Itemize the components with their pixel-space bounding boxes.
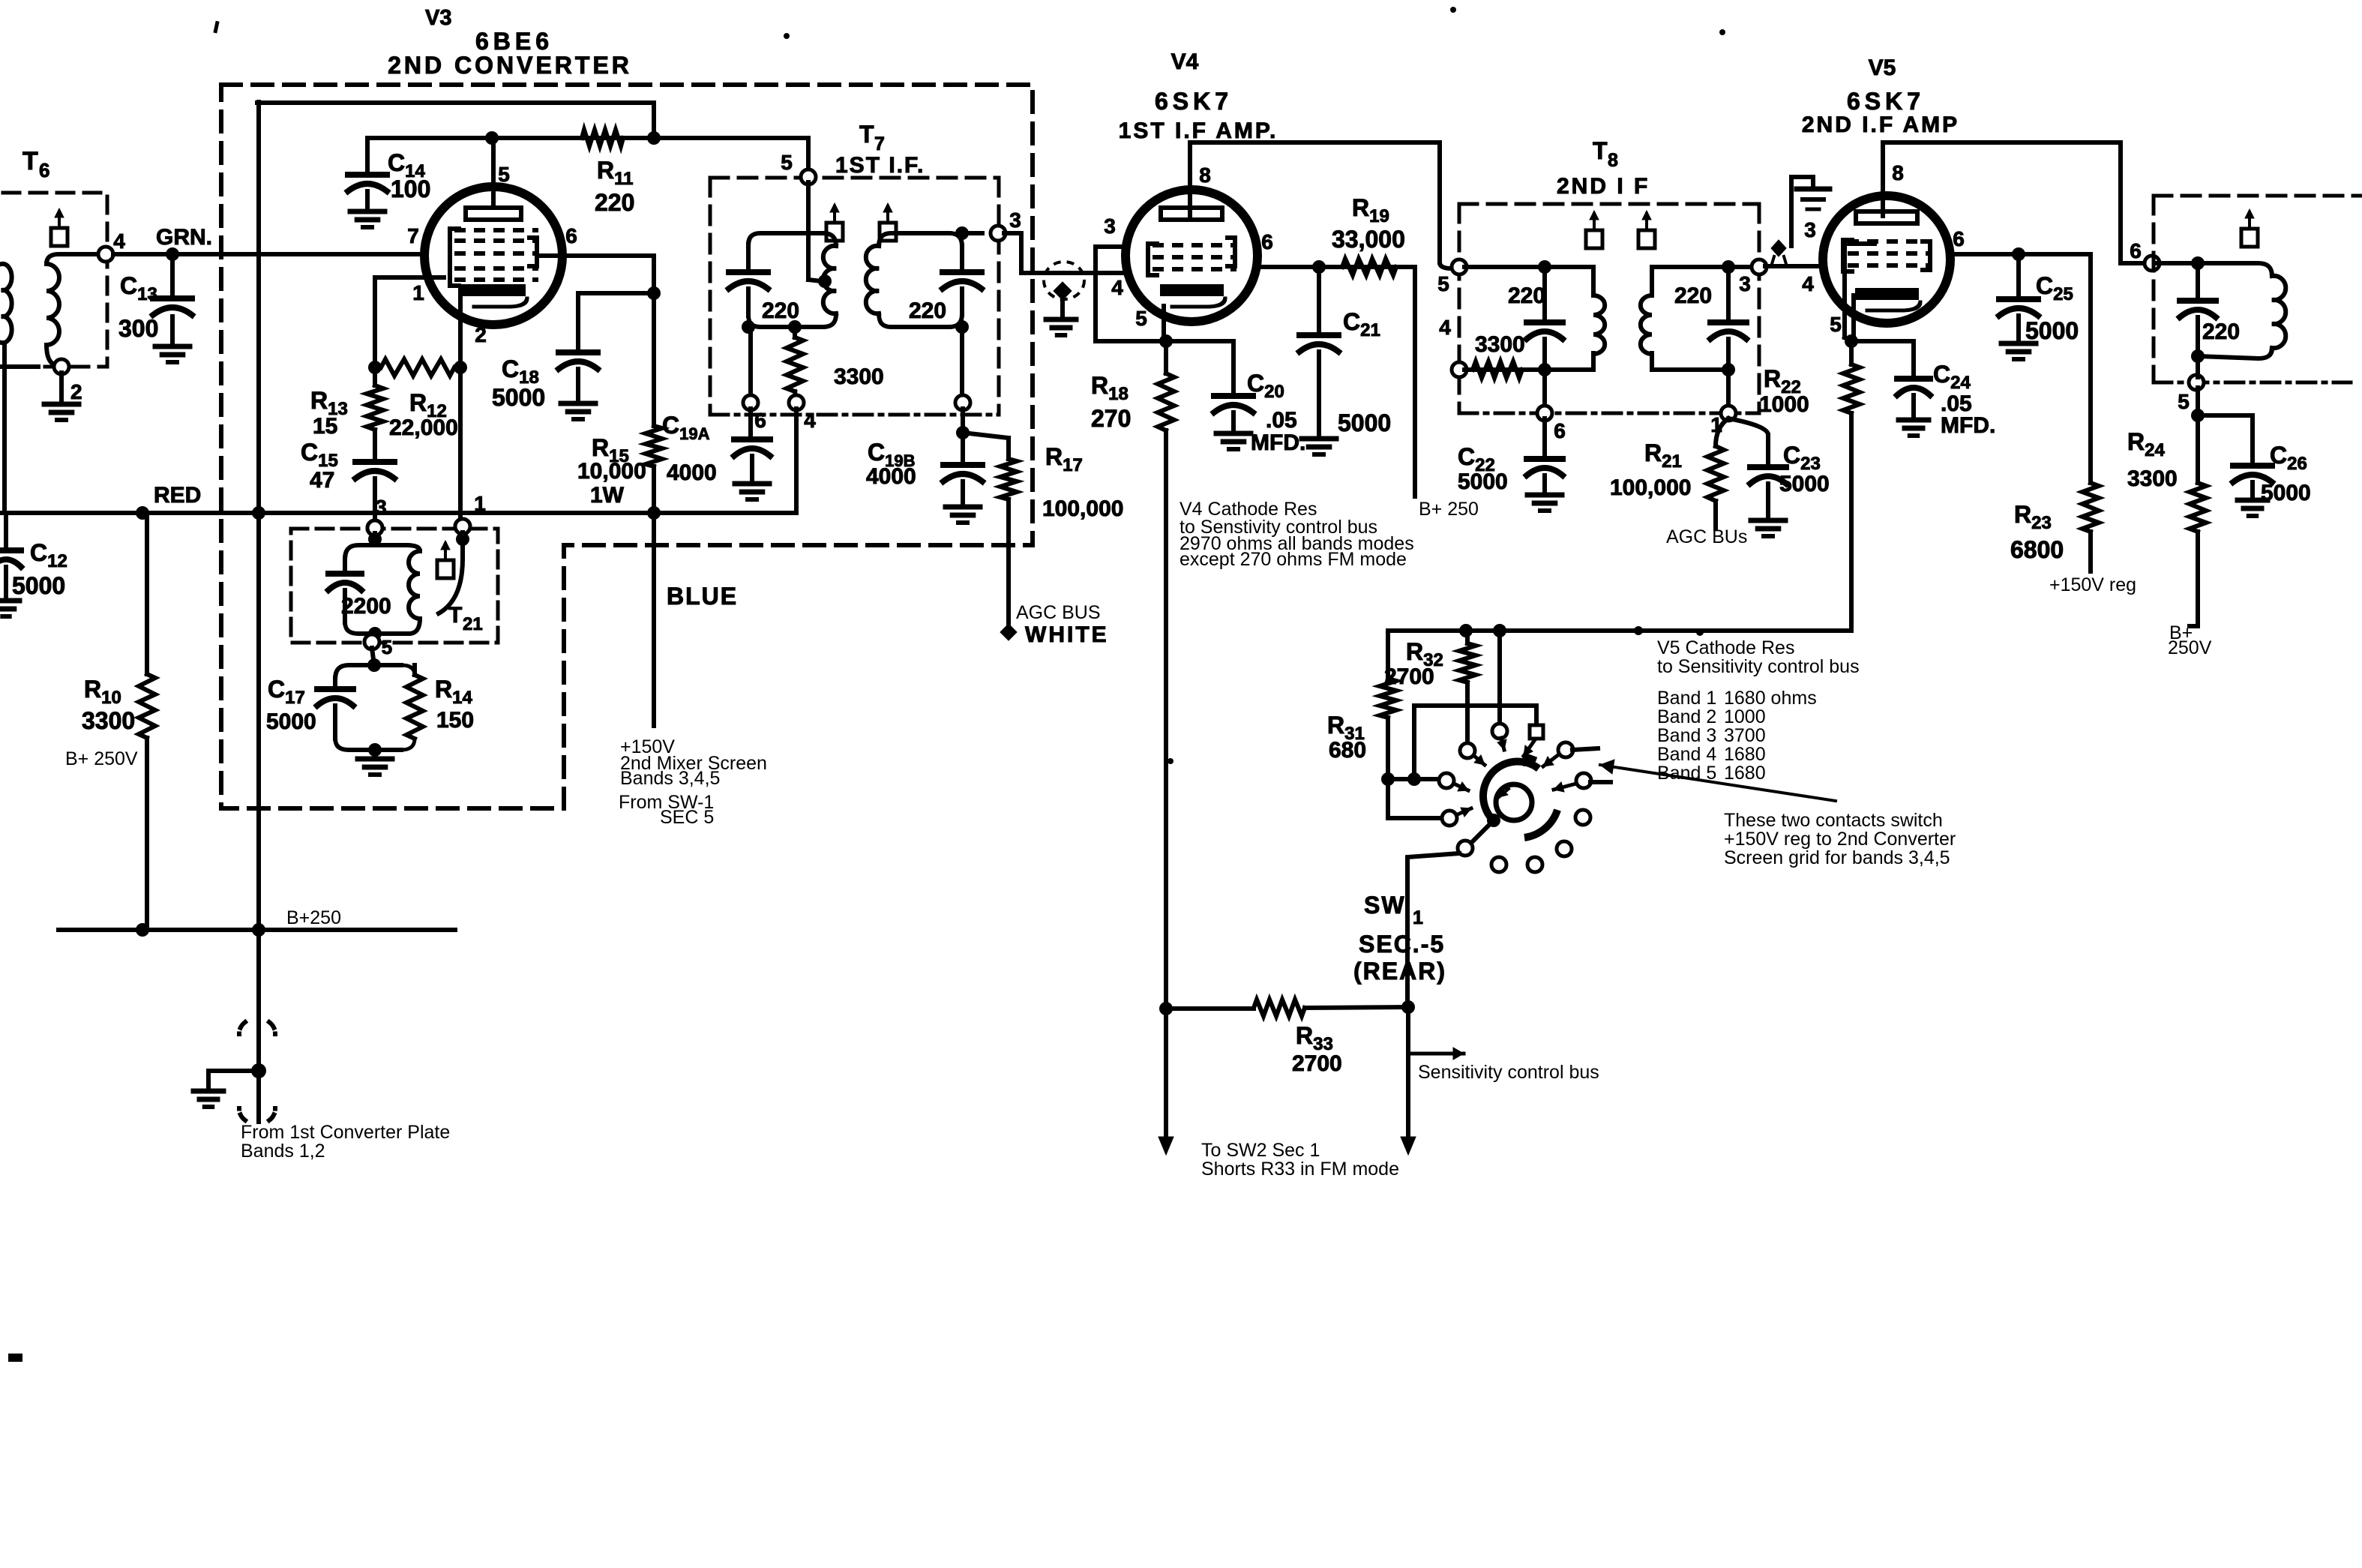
svg-text:1: 1 [474, 492, 486, 515]
svg-text:Band 2: Band 2 [1657, 706, 1716, 727]
svg-text:SEC 5: SEC 5 [660, 807, 714, 828]
svg-text:3: 3 [1739, 272, 1751, 295]
svg-text:300: 300 [118, 315, 158, 342]
svg-text:SW: SW [1364, 892, 1406, 919]
svg-text:6: 6 [1261, 230, 1273, 253]
svg-text:3: 3 [1804, 218, 1816, 241]
svg-text:2ND I F: 2ND I F [1557, 174, 1650, 199]
svg-text:6: 6 [754, 409, 766, 432]
svg-text:5: 5 [1437, 272, 1449, 295]
svg-text:1: 1 [412, 281, 424, 304]
svg-text:270: 270 [1091, 405, 1131, 432]
svg-text:5000: 5000 [492, 384, 545, 411]
svg-text:3300: 3300 [834, 364, 884, 389]
svg-text:220: 220 [2202, 319, 2240, 344]
svg-text:3300: 3300 [2127, 466, 2178, 491]
svg-text:4000: 4000 [866, 464, 916, 489]
svg-text:5000: 5000 [1779, 472, 1830, 496]
svg-text:5000: 5000 [1458, 469, 1508, 494]
svg-text:3300: 3300 [1475, 332, 1525, 357]
svg-text:5: 5 [1830, 313, 1842, 336]
svg-text:WHITE: WHITE [1025, 622, 1109, 647]
svg-text:Band 3: Band 3 [1657, 725, 1716, 746]
svg-text:5: 5 [781, 151, 793, 174]
svg-text:47: 47 [310, 468, 334, 493]
svg-text:1: 1 [1413, 907, 1423, 928]
svg-text:2: 2 [70, 380, 82, 403]
svg-text:3: 3 [375, 496, 387, 519]
svg-text:6: 6 [565, 224, 577, 247]
svg-text:10,000: 10,000 [577, 459, 646, 484]
svg-text:4000: 4000 [667, 460, 717, 485]
svg-text:8: 8 [1892, 161, 1904, 184]
svg-text:4: 4 [804, 409, 816, 432]
svg-text:7: 7 [874, 133, 885, 154]
svg-text:2700: 2700 [1384, 664, 1434, 689]
svg-text:2ND I.F AMP: 2ND I.F AMP [1802, 112, 1959, 137]
svg-text:22,000: 22,000 [389, 415, 458, 440]
svg-text:.05: .05 [1266, 408, 1297, 433]
svg-text:+150V reg to 2nd Converter: +150V reg to 2nd Converter [1724, 829, 1956, 850]
svg-text:V3: V3 [425, 6, 451, 30]
svg-text:220: 220 [1508, 283, 1545, 308]
svg-text:220: 220 [762, 298, 799, 323]
svg-text:1ST I.F AMP.: 1ST I.F AMP. [1119, 118, 1278, 143]
svg-text:2700: 2700 [1292, 1051, 1342, 1076]
svg-text:150: 150 [436, 708, 474, 733]
svg-text:To SW2 Sec 1: To SW2 Sec 1 [1201, 1140, 1320, 1161]
svg-text:15: 15 [313, 414, 337, 439]
svg-text:From 1st Converter Plate: From 1st Converter Plate [241, 1122, 450, 1143]
svg-text:5000: 5000 [2025, 317, 2079, 344]
svg-text:GRN.: GRN. [156, 225, 212, 250]
svg-text:2: 2 [475, 323, 487, 346]
svg-text:1680 ohms: 1680 ohms [1724, 688, 1817, 709]
svg-text:Screen grid for bands 3,4,5: Screen grid for bands 3,4,5 [1724, 847, 1950, 868]
svg-text:250V: 250V [2168, 637, 2212, 658]
svg-text:Shorts R33 in FM mode: Shorts R33 in FM mode [1201, 1159, 1399, 1180]
svg-text:B+ 250V: B+ 250V [65, 748, 138, 769]
svg-text:100,000: 100,000 [1610, 475, 1691, 500]
svg-text:5000: 5000 [1338, 409, 1391, 436]
svg-text:220: 220 [909, 298, 946, 323]
svg-text:1ST I.F.: 1ST I.F. [835, 153, 925, 178]
svg-text:Sensitivity control bus: Sensitivity control bus [1418, 1062, 1599, 1083]
svg-text:5000: 5000 [266, 709, 316, 734]
svg-text:1680: 1680 [1724, 763, 1766, 784]
svg-text:RED: RED [154, 483, 201, 508]
svg-text:Bands 1,2: Bands 1,2 [241, 1141, 325, 1162]
svg-text:MFD.: MFD. [1251, 430, 1305, 455]
svg-text:B+ 250: B+ 250 [1419, 499, 1479, 520]
svg-text:MFD.: MFD. [1941, 413, 1995, 438]
svg-text:2ND CONVERTER: 2ND CONVERTER [388, 52, 632, 79]
svg-text:2200: 2200 [341, 594, 391, 619]
svg-text:220: 220 [1674, 283, 1712, 308]
svg-text:5: 5 [2178, 390, 2190, 413]
svg-text:3: 3 [1009, 208, 1021, 232]
svg-text:3300: 3300 [82, 707, 135, 734]
svg-text:4: 4 [1802, 272, 1814, 295]
svg-text:6: 6 [2130, 239, 2142, 262]
svg-text:8: 8 [1199, 163, 1211, 187]
svg-text:V5 Cathode Res: V5 Cathode Res [1657, 637, 1794, 658]
svg-text:8: 8 [1608, 150, 1618, 171]
svg-text:3700: 3700 [1724, 725, 1766, 746]
svg-text:4: 4 [113, 229, 125, 253]
svg-text:1000: 1000 [1759, 392, 1809, 417]
svg-text:21: 21 [463, 614, 483, 634]
svg-text:These two contacts switch: These two contacts switch [1724, 810, 1943, 831]
svg-text:Bands 3,4,5: Bands 3,4,5 [620, 768, 720, 789]
svg-text:5: 5 [1135, 307, 1147, 330]
svg-text:BLUE: BLUE [667, 583, 738, 610]
svg-text:1W: 1W [590, 483, 625, 508]
svg-text:1680: 1680 [1724, 744, 1766, 765]
svg-text:7: 7 [407, 224, 419, 247]
svg-text:T: T [22, 147, 38, 175]
svg-text:220: 220 [595, 189, 634, 216]
svg-text:AGC BUS: AGC BUS [1016, 602, 1101, 623]
svg-text:4: 4 [1439, 316, 1451, 339]
svg-text:6800: 6800 [2010, 536, 2064, 563]
svg-text:5000: 5000 [2261, 481, 2311, 505]
svg-text:5: 5 [382, 636, 392, 658]
svg-text:SEC.-5: SEC.-5 [1359, 931, 1445, 958]
svg-text:3: 3 [1104, 214, 1116, 238]
svg-text:5: 5 [498, 163, 510, 186]
svg-text:(REAR): (REAR) [1353, 958, 1446, 985]
svg-text:6SK7: 6SK7 [1155, 88, 1233, 115]
svg-text:6: 6 [39, 159, 49, 181]
svg-text:4: 4 [1111, 276, 1123, 299]
svg-text:100,000: 100,000 [1042, 496, 1123, 521]
svg-text:6SK7: 6SK7 [1847, 88, 1925, 115]
svg-text:T: T [448, 603, 462, 628]
svg-text:except 270 ohms FM mode: except 270 ohms FM mode [1180, 549, 1407, 570]
svg-text:33,000: 33,000 [1332, 226, 1405, 253]
svg-text:to Sensitivity control bus: to Sensitivity control bus [1657, 656, 1860, 677]
svg-text:5000: 5000 [12, 572, 65, 599]
svg-text:V5: V5 [1869, 55, 1896, 80]
svg-text:1000: 1000 [1724, 706, 1766, 727]
svg-text:6BE6: 6BE6 [475, 28, 553, 55]
svg-text:T: T [1593, 137, 1608, 164]
svg-text:T: T [859, 121, 874, 148]
svg-text:6: 6 [1554, 419, 1566, 442]
svg-text:V4: V4 [1171, 49, 1199, 74]
svg-text:Band 1: Band 1 [1657, 688, 1716, 709]
svg-text:Band 4: Band 4 [1657, 744, 1716, 765]
svg-text:680: 680 [1329, 738, 1366, 763]
svg-text:+150V reg: +150V reg [2049, 574, 2136, 595]
svg-text:B+250: B+250 [286, 907, 341, 928]
svg-text:100: 100 [391, 175, 430, 202]
svg-text:AGC BUs: AGC BUs [1666, 526, 1747, 547]
svg-text:6: 6 [1953, 227, 1965, 250]
